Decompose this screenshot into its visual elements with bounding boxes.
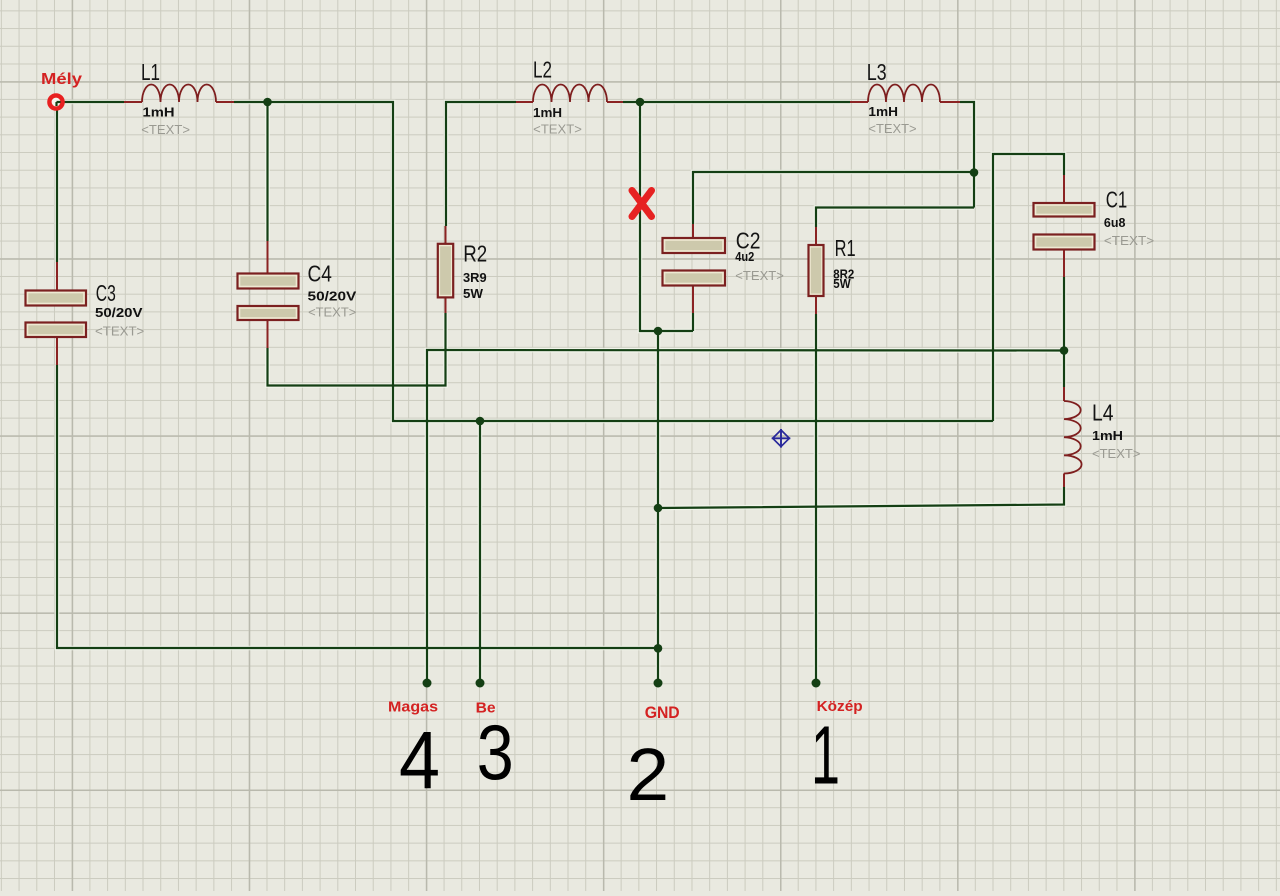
svg-text:6u8: 6u8: [1104, 215, 1126, 230]
svg-text:<TEXT>: <TEXT>: [308, 304, 356, 319]
svg-text:50/20V: 50/20V: [308, 289, 357, 304]
svg-text:1mH: 1mH: [533, 105, 562, 120]
node C1-L4 junction: [1060, 346, 1069, 355]
resistor R1: [809, 245, 824, 296]
resistor R2 inner: [440, 246, 451, 295]
wire C1 bottom to L4 top: [1063, 277, 1065, 387]
pin R1 leads: [815, 227, 817, 314]
pin C1 leads: [1063, 175, 1065, 277]
svg-text:1: 1: [811, 709, 840, 802]
svg-text:1mH: 1mH: [143, 104, 175, 119]
wire GND vertical: [657, 331, 659, 683]
svg-text:2: 2: [627, 733, 670, 816]
resistor R2: [438, 244, 453, 298]
wire Mely down to C3: [56, 102, 58, 262]
wire L3 right corner down: [960, 102, 974, 208]
svg-text:L3: L3: [867, 59, 887, 85]
wire C2 top to node: [693, 172, 974, 224]
capacitor C4: [238, 274, 299, 289]
inductor L4: [1064, 401, 1082, 474]
marker origin crosshair: [772, 429, 791, 448]
node C2 bottom junction: [654, 327, 663, 336]
node Kozep terminal: [812, 679, 821, 688]
capacitor C1: [1034, 203, 1095, 217]
pin C3 leads: [56, 262, 58, 365]
svg-text:R1: R1: [835, 235, 856, 261]
capacitor C3: [26, 291, 87, 306]
node L1-C4 junction: [263, 98, 272, 107]
wire stub visible in terminal hole: [57, 102, 61, 106]
svg-text:<TEXT>: <TEXT>: [1104, 233, 1154, 248]
node Be junction: [476, 417, 485, 426]
svg-text:L4: L4: [1092, 399, 1114, 425]
pin C4 leads: [267, 241, 269, 348]
svg-text:GND: GND: [645, 703, 680, 722]
svg-text:C3: C3: [96, 280, 116, 306]
svg-text:4: 4: [399, 715, 440, 806]
node Magas terminal: [423, 679, 432, 688]
wire C4 top lead green: [266, 102, 268, 241]
svg-text:<TEXT>: <TEXT>: [533, 122, 582, 137]
svg-text:5W: 5W: [833, 276, 851, 291]
pin L4 leads: [1063, 387, 1065, 487]
wire C1 top loop: [993, 154, 1064, 421]
wire corner to L2 left: [446, 102, 516, 226]
svg-text:<TEXT>: <TEXT>: [141, 122, 190, 137]
svg-text:R2: R2: [463, 241, 487, 267]
capacitor C3 inner: [28, 293, 83, 302]
svg-text:<TEXT>: <TEXT>: [1092, 446, 1141, 461]
svg-text:1mH: 1mH: [868, 104, 898, 119]
inductor L2: [533, 85, 607, 103]
node GND rail junction: [654, 644, 663, 653]
pin C2 leads: [692, 224, 694, 313]
node L4-GND junction: [654, 504, 663, 513]
wire Kozep vertical: [815, 314, 817, 683]
resistor R1 inner: [811, 248, 821, 294]
wire halo underlay: [57, 102, 1064, 683]
capacitor C1 inner: [1036, 206, 1091, 214]
node L2-L3 junction: [636, 98, 645, 107]
svg-text:<TEXT>: <TEXT>: [735, 268, 784, 283]
svg-text:<TEXT>: <TEXT>: [868, 121, 916, 136]
wire Mely to L1: [57, 101, 124, 103]
wire L4 bottom to GND vertical: [658, 487, 1064, 508]
wire R1 top to node: [816, 208, 974, 228]
wire Magas long horizontal: [427, 350, 1064, 683]
svg-text:3R9: 3R9: [463, 270, 487, 285]
svg-text:L1: L1: [141, 59, 160, 85]
svg-text:Magas: Magas: [388, 699, 438, 716]
node Be terminal: [476, 679, 485, 688]
svg-text:3: 3: [477, 710, 514, 796]
terminal Mely: [49, 95, 62, 108]
wire node L2R down to C2 bottom node: [640, 102, 693, 331]
wire L2 right to L3 left: [623, 101, 850, 103]
capacitor C4 inner: [240, 276, 295, 285]
wire C4 bottom elbow to R2 bottom: [268, 313, 446, 386]
wire L1 right to corner and down to C4/junction: [234, 102, 993, 421]
svg-text:C4: C4: [308, 260, 333, 286]
svg-text:C1: C1: [1106, 186, 1128, 212]
svg-text:L2: L2: [533, 57, 552, 83]
inductor L3: [868, 85, 940, 103]
wire Be vertical: [479, 421, 481, 683]
capacitor C2 inner: [665, 241, 722, 250]
inductor L1: [142, 85, 216, 103]
marker X: [632, 191, 652, 217]
svg-text:Mély: Mély: [41, 71, 82, 88]
svg-text:5W: 5W: [463, 286, 484, 301]
pin L2 leads: [516, 101, 623, 103]
node GND terminal: [654, 679, 663, 688]
wire C3 bottom to GND bottom rail: [57, 365, 658, 648]
svg-text:<TEXT>: <TEXT>: [95, 324, 144, 339]
pin R2 leads: [445, 226, 447, 313]
svg-text:1mH: 1mH: [1092, 428, 1123, 443]
svg-text:50/20V: 50/20V: [95, 305, 143, 320]
wire C2 bottom lead green: [692, 313, 694, 331]
svg-text:4u2: 4u2: [735, 249, 754, 264]
capacitor C2: [663, 238, 726, 253]
pin L1 leads: [124, 101, 234, 103]
node C2 top junction: [970, 168, 979, 177]
pin L3 leads: [850, 101, 960, 103]
